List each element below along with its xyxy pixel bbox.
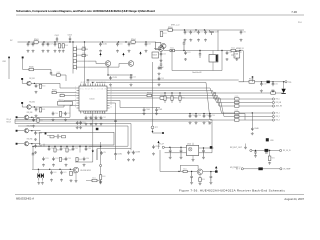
svg-text:C686: C686 [88,148,92,150]
resistor R621 [183,170,187,172]
resistor R504 [131,41,135,43]
capacitor C556 [195,114,198,118]
junction [92,82,93,83]
wire R541 to CR500 [275,92,283,94]
svg-text:RX_B: RX_B [7,122,11,124]
wire ladder tap 4 [77,66,89,68]
inductor L510 [210,146,213,149]
resistor R647 [59,157,61,161]
header rule [16,14,304,16]
junction [183,50,184,51]
svg-text:U510: U510 [187,144,191,146]
connector pin TEMP in [241,168,243,170]
ground of C556 [195,121,198,124]
connector pin RX_5 [272,98,274,100]
capacitor C5A0 [114,152,117,156]
capacitor C610 [50,171,53,175]
wire Q524 collector [29,143,32,145]
svg-text:R554: R554 [231,48,235,50]
capacitor C595 [65,157,68,161]
capacitor C581 [236,51,239,55]
svg-text:R550: R550 [168,27,173,29]
resistor network RN500 [58,102,73,106]
capacitor C599 [152,145,155,149]
resistor R532 [171,96,173,100]
resistor R555 [170,49,175,52]
node K9X [22,57,24,59]
ground of C580 [35,91,38,94]
connector pin RX_VS in [250,149,252,151]
svg-text:C599: C599 [155,146,160,148]
svg-text:C530: C530 [55,113,59,115]
diode CR500 [281,89,285,93]
capacitor C576 [184,51,187,55]
ground of C571 [189,39,192,42]
svg-text:C579: C579 [229,52,233,54]
wire Q521 collector [31,106,34,108]
ground of U510 [192,159,195,162]
svg-text:R520: R520 [52,90,57,92]
svg-text:22: 22 [110,107,112,109]
svg-text:C594: C594 [55,158,59,160]
svg-text:C611: C611 [63,172,67,174]
ground of C611 [60,179,63,182]
wire step to RX row 5 [220,98,235,117]
ground of C516 [160,59,163,62]
junction [70,169,71,170]
wire ladder tap 1 [77,48,89,50]
transistor Q501 [105,61,111,67]
junction [171,92,172,93]
wire ladder tap 3 [77,60,89,62]
svg-text:RX_IN5: RX_IN5 [27,138,33,140]
svg-text:R570: R570 [235,96,239,98]
wire base Q502 [88,64,128,68]
wire mixer drop [239,51,244,82]
resistor R541 [271,92,276,94]
ground of C536 [95,123,98,126]
wire Q610 emitter [199,175,201,178]
wire rail drop [217,30,219,51]
svg-text:C554: C554 [206,115,210,117]
capacitor C546 on drop [114,121,117,122]
wire loop net D [18,126,128,146]
inductor L520 [266,138,269,141]
junction [54,41,55,42]
ground of C599 [152,152,155,155]
svg-text:C550: C550 [212,115,216,117]
capacitor C531 [64,112,67,116]
capacitor C544 [143,108,146,113]
wire drop from U500 pin [92,114,94,150]
svg-text:30: 30 [110,87,112,89]
wire bus down to U500 [84,42,86,86]
capacitor C531 [100,116,103,120]
junction [191,171,192,172]
junction [102,41,103,42]
junction [195,29,196,30]
filter U503 box [152,52,159,58]
svg-text:MTR_x_id: MTR_x_id [171,24,179,26]
svg-text:R507: R507 [57,72,61,74]
svg-text:R535: R535 [166,97,170,99]
junction [38,169,39,170]
svg-text:L520: L520 [270,140,274,142]
ground row mid [244,146,247,149]
node TP2 [162,132,164,134]
capacitor C504 [27,42,30,46]
diode D601 [41,173,43,178]
wire stage2 to U500 [48,101,77,108]
capacitor C641 inside shield [57,134,59,139]
resistor R562 [37,118,39,122]
resistor R570 [235,98,240,100]
node J4 [16,130,18,132]
resistor R510 [73,48,76,51]
wire RX_VS row [252,150,279,152]
capacitor C561 [272,82,275,86]
inductor L500 [267,81,270,84]
capacitor C502 above bus [56,37,58,42]
svg-text:RX_IF: RX_IF [159,144,164,146]
wire IF bus 4a [110,95,147,97]
svg-text:R530: R530 [181,97,185,99]
wire test pad stub [252,77,254,82]
svg-text:C572: C572 [200,32,204,34]
node J5 [16,143,18,145]
capacitor C611 [60,171,63,175]
junction [31,130,32,131]
stub R gnd at 180 [179,100,181,103]
ground of C598 [132,158,135,161]
capacitor C574 [210,30,214,35]
connector pin RX_3 [272,119,274,121]
junction [204,29,205,30]
junction [283,81,284,82]
svg-text:24: 24 [110,102,112,104]
svg-text:C561: C561 [275,83,279,85]
junction [203,113,204,114]
wire U303 stub [231,54,234,56]
ground of C561 [272,89,275,92]
resistor R561 [39,108,41,112]
ground of C508 [54,50,57,53]
wire rail ext 1 [92,146,101,148]
wire RX row 4 to connector [239,112,272,114]
svg-text:Schematics, Component Location: Schematics, Component Location Diagrams,… [16,9,155,13]
stub R at 180 [179,93,181,96]
wire feedback loop [180,165,198,171]
capacitor C584 [34,144,37,148]
wire J3 to Q522 [18,116,25,118]
svg-text:RX_2: RX_2 [276,116,280,118]
capacitor C540 [79,121,82,125]
svg-text:R521: R521 [60,93,64,95]
connector pin TEMP out [280,168,282,170]
svg-text:C545: C545 [158,109,162,111]
wire Q520 collector [31,82,34,84]
wire U510 bottom pin [192,156,194,159]
ground of C584 [34,151,37,154]
svg-text:26: 26 [110,97,112,99]
ground of C622 [202,156,205,159]
capacitor C520 [130,75,133,79]
ground of C579 [226,58,229,61]
junction [72,146,73,147]
ground of C595 [65,164,68,167]
resistor R573 [235,112,240,114]
svg-text:C531: C531 [103,117,107,119]
junction [178,171,179,172]
svg-text:C544: C544 [146,109,150,111]
diode D600 [38,173,40,178]
wire DATA bus over U500 [96,82,206,84]
capacitor C594 [52,157,55,161]
svg-text:P1-8: P1-8 [298,22,302,24]
test point on VCO drop [100,164,102,166]
resistor R575 [235,119,240,121]
ground of C583 [34,138,37,141]
svg-text:CLOCK VCO: CLOCK VCO [80,170,91,172]
ground of C531 [64,118,67,121]
wire IF bus 5b [165,97,221,99]
ground of C631 [190,181,193,184]
wire IF bus 3 [110,92,215,94]
supply arrow 1 [99,53,101,55]
voltage regulator U502 box [155,43,161,50]
wire Q524 out [32,143,41,145]
node K9R [8,57,10,59]
svg-text:C507: C507 [50,44,54,46]
capacitor C631 [190,171,193,181]
stub R at 165 [164,93,166,96]
ground of C531 [100,123,103,126]
wire Q610 out [203,171,215,173]
ground of C554 [203,121,206,124]
resistor R646 [66,148,68,152]
svg-text:R630: R630 [271,157,275,159]
wire to node sq [153,132,163,134]
capacitor C505 [32,42,35,46]
connector pin RX_1 [272,112,274,114]
svg-text:R573: R573 [235,110,239,112]
wire FL500 in [212,51,214,55]
transistor Q522 [24,115,28,119]
svg-text:C511: C511 [119,44,123,46]
ground of C594 [52,164,55,167]
capacitor C593 [42,157,45,161]
junction [107,74,108,75]
junction [180,147,181,148]
wire VCO right drop [100,142,102,175]
junction [172,29,173,30]
resistor R572 [235,105,240,107]
svg-text:R562: R562 [39,120,43,122]
transistor Q502 [128,61,134,67]
transistor Q510 [158,46,164,52]
wire CR501 down [75,153,93,162]
ground of C519 [109,83,112,86]
capacitor C630 [210,172,213,182]
svg-text:C516: C516 [163,54,167,56]
op-amp U500 IF IC body [79,86,107,111]
junction [87,79,88,80]
resistor R550 [168,29,173,32]
svg-text:Back-End IF: Back-End IF [192,72,201,74]
capacitor C575 inter-rail [183,41,186,51]
supply arrow 3 [139,52,141,54]
svg-text:C574: C574 [215,32,219,34]
resistor R515 [82,54,86,56]
capacitor C560 [260,82,263,86]
ground of C520 [130,83,133,86]
connector pin RX_VS out [280,149,282,151]
transistor Q505 [161,44,166,49]
svg-text:C640: C640 [254,128,259,130]
mixer U510 box [186,145,198,155]
wire to R612 [86,180,92,182]
capacitor C531 [90,116,93,120]
svg-text:-2: -2 [235,56,236,58]
resistor R512 [73,60,76,63]
junction [252,112,253,113]
capacitor C522 [50,72,57,75]
transistor Q521 [27,105,31,109]
ground of R650 [99,180,102,183]
wire Q523 collector [29,130,32,132]
svg-text:R612: R612 [92,178,96,180]
ground of C550 [209,121,212,124]
ground of C506 [42,50,45,53]
svg-text:R551: R551 [163,33,167,35]
ground of C621 [180,156,183,159]
connector pin RX_2 [272,115,274,117]
resistor R513 [73,66,76,69]
capacitor C598 [132,151,135,155]
junction [118,41,119,42]
wire loop to caps [130,149,132,151]
svg-text:R575: R575 [235,117,239,119]
wire to D600 [38,169,40,173]
svg-text:C550: C550 [192,115,196,117]
wire Q523 out [32,130,41,132]
resistor R503 [62,44,64,48]
svg-text:C519: C519 [112,77,117,79]
svg-text:RX_IN1: RX_IN1 [29,78,35,80]
wire mixer rail [164,50,244,52]
wire Q601 emitter [75,173,77,180]
svg-text:U500: U500 [90,99,96,101]
capacitor C572 [197,30,200,34]
resistor R511 [73,54,76,57]
junction [145,41,146,42]
wire step to RX row 6 [206,83,235,121]
junction [60,146,61,147]
node inside shield [45,133,47,135]
wire Q510 base [154,48,158,50]
capacitor C571 [190,30,193,34]
junction [66,146,67,147]
resistor R640 inside shield [50,136,54,138]
resistor R506 [29,68,34,71]
svg-text:U503: U503 [153,54,157,56]
wire VCO rail [33,146,92,148]
junction [28,41,29,42]
capacitor C580 [35,84,38,88]
svg-text:C590: C590 [117,153,122,155]
svg-text:TP6: TP6 [288,82,291,84]
junction [203,147,204,148]
junction [72,41,73,42]
capacitor C517 [158,66,161,70]
svg-text:C582: C582 [243,32,247,34]
ground of D601 [41,182,44,185]
svg-text:7-36: 7-36 [291,10,297,14]
capacitor C583 [34,131,37,135]
svg-text:R532: R532 [173,97,177,99]
ground of R630 [268,162,271,165]
capacitor C518 [158,77,161,81]
svg-text:R530: R530 [147,93,152,95]
ground of C505 [32,50,35,53]
wire drop 2 [96,149,98,160]
stub R at 172 [171,93,173,96]
svg-text:C576: C576 [187,52,191,54]
junction [195,113,196,114]
ground of R502 [58,50,61,53]
supply arrow 2 [122,53,124,55]
junction TP7 node [152,131,154,133]
wire RX row 2 to connector [239,102,272,104]
capacitor C554 [203,114,206,118]
node J2 [21,102,23,104]
ground of C547 [76,126,79,129]
capacitor C582 [240,30,243,34]
wire J5 to Q524 [18,143,25,145]
capacitor C516 [160,52,163,56]
transistor Q601 [73,167,79,173]
diode CR501 [92,151,94,153]
svg-text:C5: C5 [103,152,105,154]
capacitor C696 [83,157,86,161]
resistor R641 inside shield [62,136,66,138]
wire bank left feed [32,147,34,170]
junction [189,113,190,114]
svg-text:C598: C598 [135,152,140,154]
wire VCC rail 2 [160,29,245,31]
resistor R620 [199,178,201,182]
wire U510 out [199,147,214,149]
junction [255,150,256,151]
svg-text:VCC IN QT RS CL DT GN IF: VCC IN QT RS CL DT GN IF [80,89,106,91]
junction [199,50,200,51]
junction [210,171,211,172]
wire RX row 1 to connector [239,98,272,100]
resistor R502 [58,44,60,48]
stub gnd [245,144,247,147]
ground of C650 [254,155,257,158]
inductor L521 [265,149,269,152]
svg-text:C531: C531 [67,113,71,115]
wire U500 pin38 up [87,80,89,84]
svg-text:C592: C592 [75,148,79,150]
resistor R648 [76,157,78,161]
ground of R620 [199,182,202,185]
wire R520 to U500 [56,92,76,94]
svg-text:RX_VS_5V: RX_VS_5V [283,150,292,152]
junction [31,143,32,144]
stub to R630 [269,151,271,157]
